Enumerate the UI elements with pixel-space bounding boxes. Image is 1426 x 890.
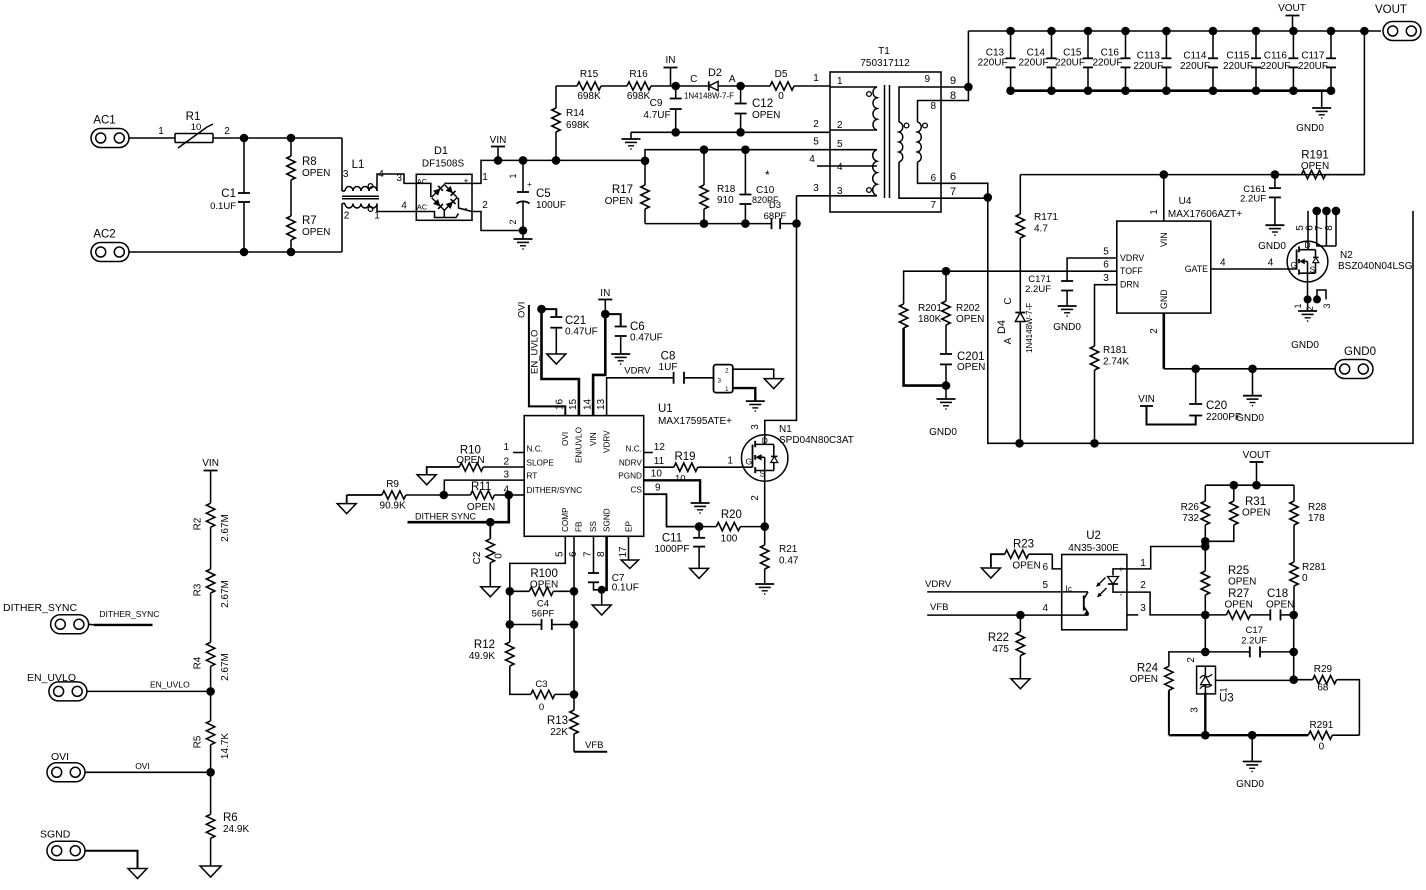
node junction [964,83,973,92]
connector SGND [40,829,85,861]
svg-text:VIN: VIN [202,458,219,469]
svg-text:3: 3 [343,169,349,180]
ground GND0 [1291,299,1319,351]
wire [1204,615,1206,652]
svg-text:VFB: VFB [930,602,948,613]
wire [733,369,774,378]
pin 11 label [654,456,665,467]
svg-text:C: C [1003,297,1014,304]
svg-text:R8: R8 [302,156,317,168]
svg-text:5: 5 [813,137,819,148]
resistor R28 [1290,485,1327,562]
wire SGND [602,536,607,590]
wire [718,85,741,87]
wire [213,126,342,138]
node junction [570,690,579,699]
svg-text:698K: 698K [566,120,590,131]
svg-text:N1: N1 [779,424,792,435]
node junction [1252,86,1261,95]
svg-text:6: 6 [930,173,936,184]
power VIN [1138,394,1196,425]
svg-text:C116: C116 [1264,51,1288,62]
ground [417,475,436,485]
svg-text:8: 8 [930,101,936,112]
ground [755,584,774,594]
bridge rectifier D1 [416,145,472,220]
wire drain [750,224,797,439]
svg-text:2: 2 [1149,328,1160,334]
resistor R281 [1290,562,1327,615]
svg-text:+: + [1119,565,1124,574]
svg-text:1: 1 [813,73,819,84]
resistor R22 [988,615,1025,679]
node junction [486,518,495,527]
svg-text:0: 0 [494,553,505,559]
svg-text:SGND: SGND [40,829,71,841]
node junction [1252,27,1261,36]
wire [1308,282,1327,300]
resistor R11 [444,481,509,513]
wire [1011,89,1331,92]
node junction [1201,537,1210,546]
svg-text:9: 9 [655,483,661,494]
svg-text:2: 2 [1186,657,1197,663]
svg-text:OVI: OVI [51,751,69,763]
svg-text:6: 6 [1103,260,1109,271]
capacitor C171 [1025,274,1073,306]
svg-text:C117: C117 [1301,51,1325,62]
svg-text:OPEN: OPEN [530,580,558,591]
svg-text:-: - [465,203,468,213]
ground [611,354,630,364]
ground [128,869,147,879]
svg-text:698K: 698K [577,91,601,102]
pin 1 [503,442,524,453]
inductor L1 [342,138,384,252]
capacitor C114 [1180,31,1218,91]
ground [981,568,1000,578]
ground [514,231,533,250]
svg-text:C8: C8 [661,351,676,363]
node junction [1304,295,1312,303]
power VOUT [1243,450,1271,485]
svg-text:VOUT: VOUT [1375,4,1407,16]
svg-text:90.9K: 90.9K [380,501,406,512]
wire [941,186,988,198]
svg-text:4.7UF: 4.7UF [643,110,670,121]
wire [904,271,946,304]
node junction [240,134,249,143]
svg-text:OPEN: OPEN [605,196,633,207]
power IN [598,288,612,314]
capacitor C17 [1205,625,1293,657]
svg-text:N2: N2 [1340,250,1353,261]
node junction [671,128,680,137]
node junction [1047,27,1056,36]
node junction [1360,27,1369,36]
node junction [1289,648,1298,657]
optocoupler U2 4N35 [1062,530,1127,630]
net VFB [574,740,607,752]
svg-text:220UF: 220UF [1018,58,1048,69]
svg-text:2.2UF: 2.2UF [1025,284,1051,295]
svg-text:3: 3 [396,173,402,184]
capacitor C161 [1240,175,1281,226]
node junction [506,620,515,629]
resistor R7 [287,215,331,252]
capacitor C116 [1260,31,1298,91]
connector EN_UVLO [27,672,87,701]
svg-text:R281: R281 [1302,562,1326,573]
resistor R201 [899,303,946,386]
svg-text:8: 8 [950,90,956,102]
svg-text:GND0: GND0 [1291,340,1319,351]
connector VOUT [1375,4,1421,41]
ground [592,590,611,615]
wire [1281,614,1294,616]
wire [780,223,796,225]
wire [941,87,968,102]
capacitor D3 [764,200,787,229]
svg-text:2.67M: 2.67M [220,653,231,681]
svg-text:C5: C5 [536,188,551,200]
svg-text:6: 6 [1042,562,1048,573]
svg-text:R202: R202 [956,303,980,314]
svg-text:S: S [760,469,766,479]
svg-text:0.1UF: 0.1UF [612,583,639,594]
wire [809,154,830,166]
svg-text:COMP: COMP [561,507,570,532]
svg-text:2: 2 [1140,580,1146,591]
power VOUT [1278,3,1306,31]
svg-text:8: 8 [1324,225,1335,231]
wire [1316,211,1318,247]
svg-text:4N35-300E: 4N35-300E [1068,543,1119,554]
svg-text:S: S [1310,265,1316,275]
svg-text:VOUT: VOUT [1243,450,1271,461]
node junction [1289,86,1298,95]
svg-text:GND0: GND0 [1344,346,1376,358]
wire [941,75,968,87]
capacitor C7 [588,536,639,593]
resistor C2 [472,522,505,587]
ground GND0 [929,386,957,438]
svg-text:R100: R100 [530,568,558,580]
svg-text:R7: R7 [302,215,317,227]
svg-text:C114: C114 [1183,51,1207,62]
resistor R181 [1090,345,1129,443]
capacitor C6 [605,314,662,354]
wire [1325,211,1327,246]
svg-text:GND0: GND0 [1296,123,1324,134]
wire PGND [644,480,700,503]
svg-text:11: 11 [654,456,665,467]
ground GND0 [1258,225,1286,252]
ground [200,866,221,877]
node junction [519,226,528,235]
svg-text:9: 9 [950,75,956,87]
svg-text:NDRV: NDRV [619,459,643,468]
svg-text:3: 3 [1190,707,1201,713]
svg-text:1: 1 [1293,303,1303,308]
capacitor C15 [1055,31,1093,91]
svg-text:68PF: 68PF [764,211,787,222]
svg-text:1: 1 [727,456,733,467]
svg-text:SGND: SGND [602,508,611,532]
resistor R10 [427,445,525,475]
svg-text:0.47UF: 0.47UF [630,333,663,344]
svg-text:EP: EP [625,521,634,532]
wire [472,200,523,231]
node junction [1084,27,1093,36]
wire [556,85,577,87]
svg-text:OPEN: OPEN [1225,600,1253,611]
svg-text:D4: D4 [996,320,1008,334]
svg-text:R25: R25 [1228,565,1249,577]
svg-text:7: 7 [950,186,956,198]
svg-text:A: A [729,74,736,85]
svg-text:VDRV: VDRV [925,579,952,590]
svg-text:OPEN: OPEN [302,168,330,179]
pin 1 label [1140,558,1146,569]
wire [129,251,342,253]
svg-text:R20: R20 [721,509,742,521]
ground [481,587,500,597]
svg-text:R19: R19 [674,451,695,463]
wire [733,388,756,401]
svg-text:14.7K: 14.7K [220,733,231,759]
svg-text:2: 2 [224,126,230,137]
svg-text:2.74K: 2.74K [1103,357,1129,368]
wire U3 ref [1216,680,1294,692]
svg-text:VDRV: VDRV [602,430,611,453]
svg-text:4: 4 [1268,258,1274,269]
node junction [206,768,215,777]
wire [645,137,830,161]
svg-text:R23: R23 [1013,539,1034,551]
svg-text:RT: RT [527,472,538,481]
svg-text:9: 9 [924,74,930,85]
svg-text:C: C [690,74,697,85]
svg-text:C1: C1 [221,188,236,200]
svg-text:R21: R21 [779,544,798,555]
pin 14 [583,398,594,410]
svg-text:D3: D3 [769,200,781,211]
svg-text:DITHER_SYNC: DITHER_SYNC [99,609,159,619]
svg-text:C17: C17 [1245,625,1262,636]
svg-text:DITHER SYNC: DITHER SYNC [415,512,477,522]
wire COMP [510,536,566,591]
node junction [741,219,750,228]
ground [622,132,641,149]
node junction [1201,648,1210,657]
svg-text:1UF: 1UF [659,362,678,373]
svg-text:22K: 22K [550,727,568,738]
pin 2 label [503,456,509,467]
svg-text:VDRV: VDRV [1120,253,1144,263]
svg-text:C12: C12 [752,98,773,110]
capacitor C4 [510,591,574,630]
svg-text:GND0: GND0 [1236,413,1264,424]
svg-text:R9: R9 [386,479,399,490]
svg-text:GND0: GND0 [1053,322,1081,333]
op-amp U1 MAX17595 [524,403,732,536]
resistor R31 [1205,485,1270,541]
svg-text:U2: U2 [1086,530,1101,542]
node junction [1289,675,1298,684]
svg-text:AC: AC [417,203,428,212]
node junction [1084,86,1093,95]
svg-text:AC2: AC2 [93,229,115,241]
node junction [519,156,528,165]
svg-text:1: 1 [158,126,164,137]
resistor R171 [1016,175,1058,308]
svg-text:4: 4 [1220,258,1226,269]
svg-text:2.2UF: 2.2UF [1240,194,1266,205]
resistor R8 [287,138,331,216]
resistor R18 [700,150,736,224]
svg-text:R171: R171 [1034,212,1058,223]
net EN_UVLO [530,305,579,416]
svg-text:2: 2 [813,119,819,130]
resistor R26 [1181,485,1210,546]
svg-text:MAX17595ATE+: MAX17595ATE+ [658,416,732,427]
svg-text:220UF: 220UF [978,58,1008,69]
node junction [1271,170,1280,179]
node junction [506,587,515,596]
ground GND0 [1053,306,1081,333]
svg-text:220UF: 220UF [1298,61,1328,72]
svg-text:IN: IN [666,55,676,66]
node junction [206,687,215,696]
svg-text:C9: C9 [650,98,663,109]
svg-text:C115: C115 [1226,51,1250,62]
capacitor C18 [1266,588,1294,620]
svg-text:+: + [527,180,532,189]
svg-text:0: 0 [778,91,784,102]
wire OVI [85,761,211,772]
pin 5 [555,551,566,557]
node junction [440,491,449,500]
ground [337,504,356,514]
resistor R14 [552,86,590,160]
resistor R21 [761,527,799,584]
wire R23 net [1029,554,1062,573]
svg-text:17: 17 [618,546,629,558]
svg-text:C2: C2 [472,551,483,564]
wire source [750,481,765,527]
svg-text:R31: R31 [1245,496,1266,508]
svg-text:5: 5 [837,139,843,150]
wire [491,159,645,161]
wire [129,126,175,138]
svg-text:VIN: VIN [1159,232,1169,247]
svg-text:0.1UF: 0.1UF [210,201,236,212]
svg-text:IN: IN [600,288,610,299]
capacitor C8 [659,351,684,384]
pin 9 label [655,483,661,494]
capacitor C5 [508,160,566,230]
svg-text:A: A [1003,337,1014,344]
svg-text:R2: R2 [192,517,203,530]
wire [509,494,524,496]
svg-text:4: 4 [401,201,407,212]
svg-text:5: 5 [1042,580,1048,591]
svg-text:56PF: 56PF [532,609,555,620]
wire [1095,273,1117,346]
svg-text:100: 100 [721,534,738,545]
node junction [1201,731,1210,740]
svg-text:1N4148W-7-F: 1N4148W-7-F [684,91,734,100]
svg-text:R28: R28 [1308,502,1327,513]
node junction [1016,611,1025,620]
svg-text:DRN: DRN [1120,280,1139,290]
resistor R5 [192,691,231,772]
resistor R3 [192,569,231,642]
svg-text:OPEN: OPEN [1301,161,1329,172]
ground GND0 [1296,91,1331,134]
node junction [601,310,610,319]
node junction [671,82,680,91]
svg-text:C11: C11 [662,533,682,545]
svg-text:R5: R5 [192,735,203,748]
svg-text:OPEN: OPEN [957,362,985,373]
svg-text:CS: CS [631,486,643,495]
svg-text:OPEN: OPEN [456,455,484,466]
node junction [1312,207,1321,216]
svg-text:D5: D5 [775,69,788,80]
wire [645,223,772,225]
svg-text:OPEN: OPEN [752,110,780,121]
resistor R291 [1308,720,1359,753]
svg-text:68: 68 [1317,683,1329,694]
resistor R13 [547,625,578,752]
svg-text:VIN: VIN [490,135,507,146]
wire [1335,211,1337,246]
svg-text:R181: R181 [1103,345,1127,356]
node junction [1162,27,1171,36]
svg-text:DITHER/SYNC: DITHER/SYNC [527,486,583,495]
node junction [1201,542,1210,551]
svg-text:OVI: OVI [135,761,150,771]
resistor R4 [192,642,231,691]
capacitor C117 [1298,31,1336,91]
svg-text:2: 2 [503,456,509,467]
pin 10 label [651,469,663,480]
resistor R27 [1205,588,1270,619]
wire CS [644,494,699,526]
svg-text:49.9K: 49.9K [469,651,495,662]
svg-text:DITHER_SYNC: DITHER_SYNC [3,602,78,614]
svg-text:OPEN: OPEN [1266,600,1294,611]
capacitor C12 [735,86,781,132]
svg-text:GND0: GND0 [929,427,957,438]
node junction [1006,27,1015,36]
svg-text:2.67M: 2.67M [220,580,231,608]
svg-text:2.67M: 2.67M [220,514,231,542]
node junction [1209,27,1218,36]
node junction [1015,439,1024,448]
node junction [1201,611,1210,620]
svg-text:R22: R22 [988,632,1009,644]
node junction [700,145,709,154]
wire EN_UVLO [87,680,211,692]
ground [746,401,765,411]
node junction [736,128,745,137]
wire [968,30,1364,32]
diode D2 [684,67,736,100]
svg-text:+: + [463,176,468,186]
